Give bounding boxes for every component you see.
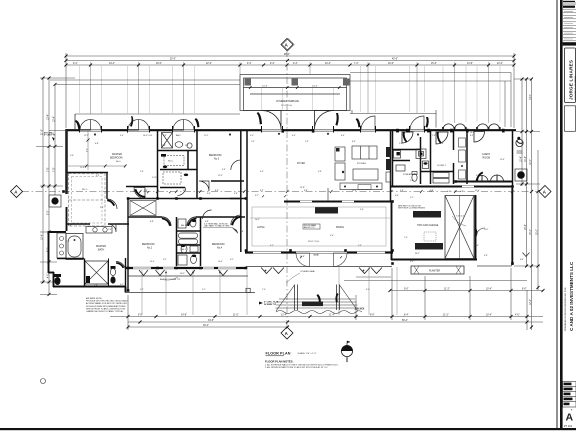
title block vertical thick line (560, 0, 563, 429)
svg-text:15'-0": 15'-0" (536, 229, 538, 235)
svg-text:3'-6": 3'-6" (395, 195, 399, 197)
bath fixtures right wing (394, 149, 450, 183)
great room south double doors arcs (250, 218, 390, 267)
leader arrows scattered (160, 216, 466, 283)
garage right door leaf (474, 228, 477, 237)
svg-text:TWO CAR GARAGE: TWO CAR GARAGE (417, 224, 439, 227)
windows white gaps in bottom walls (133, 253, 385, 269)
svg-text:3'-8": 3'-8" (234, 193, 238, 195)
black jamb marks right wing wall (396, 129, 505, 133)
svg-text:13'-4": 13'-4" (48, 114, 50, 120)
svg-text:4'-0": 4'-0" (207, 193, 211, 195)
architect name box (565, 48, 576, 103)
svg-text:9'-2": 9'-2" (48, 210, 50, 215)
svg-text:9'-2": 9'-2" (255, 195, 259, 197)
svg-text:2'-6": 2'-6" (410, 180, 414, 182)
svg-text:45'-6": 45'-6" (392, 59, 398, 61)
svg-text:7'-2": 7'-2" (354, 63, 359, 65)
svg-text:8'-8": 8'-8" (304, 190, 308, 192)
svg-text:LANAI: LANAI (313, 253, 319, 256)
toilet + bidet (111, 266, 116, 269)
svg-text:30'-4": 30'-4" (203, 325, 209, 327)
svg-text:2'-2": 2'-2" (410, 197, 414, 199)
top exterior wall (67, 129, 516, 131)
right wing bottom line (344, 280, 527, 282)
svg-text:20'-2": 20'-2" (415, 253, 420, 255)
svg-text:2'-10": 2'-10" (152, 177, 157, 179)
svg-text:FLOOR PLAN NOTES:: FLOOR PLAN NOTES: (265, 359, 293, 363)
leader note garage top (398, 206, 426, 210)
svg-text:7'-6" CLG: 7'-6" CLG (456, 216, 465, 218)
svg-text:BATH: BATH (98, 249, 104, 252)
svg-text:18'-0": 18'-0" (156, 63, 162, 65)
living soffit rect (252, 207, 386, 246)
bold door leaves (black commas) along top wall (75, 112, 429, 129)
svg-text:KITCHEN: KITCHEN (357, 163, 366, 165)
left dim verticals (36, 78, 75, 295)
svg-text:11'-8": 11'-8" (352, 190, 357, 192)
bath stack vertical (176, 217, 178, 266)
svg-text:7'-4": 7'-4" (404, 237, 408, 239)
small circle symbol bottom left (41, 379, 46, 384)
svg-text:9'-6": 9'-6" (86, 148, 88, 152)
small box below (565, 106, 576, 132)
centerline interior dim ticks (139, 190, 514, 193)
svg-text:5'-6": 5'-6" (358, 245, 362, 247)
svg-text:15'-0": 15'-0" (530, 229, 532, 235)
svg-text:8'-6": 8'-6" (341, 135, 345, 137)
svg-text:4'-2": 4'-2" (183, 190, 187, 192)
svg-text:7'-0": 7'-0" (251, 141, 255, 143)
svg-text:COVERED TERRACE: COVERED TERRACE (276, 100, 299, 103)
svg-text:14'-4": 14'-4" (312, 86, 318, 88)
column w black dot (49, 195, 61, 207)
svg-text:FLOOR PLAN: FLOOR PLAN (266, 352, 291, 356)
svg-text:10'-4": 10'-4" (486, 315, 492, 317)
svg-text:3'-0": 3'-0" (133, 191, 137, 193)
svg-text:6'-2": 6'-2" (120, 284, 124, 286)
svg-text:6'-8": 6'-8" (150, 221, 154, 223)
planter (411, 266, 464, 274)
dark note box kitchen (315, 207, 338, 214)
svg-text:FOYER: FOYER (297, 163, 305, 165)
svg-text:5'-4": 5'-4" (250, 135, 254, 137)
svg-text:2'-8": 2'-8" (162, 145, 166, 147)
dim numbers top (73, 54, 503, 65)
svg-text:52'-6": 52'-6" (170, 59, 176, 61)
svg-text:10'-2": 10'-2" (497, 63, 503, 65)
svg-text:34'-8": 34'-8" (208, 320, 214, 322)
roof overhang lines (50, 73, 511, 128)
entry portico (240, 75, 350, 111)
svg-text:8'-2": 8'-2" (260, 190, 264, 192)
svg-text:9'-4": 9'-4" (247, 63, 252, 65)
interior dim slashes (147, 191, 342, 258)
svg-text:7'-0": 7'-0" (262, 289, 266, 291)
svg-text:12'-2": 12'-2" (530, 299, 532, 305)
left vanity (57, 233, 66, 258)
svg-text:5'-2": 5'-2" (96, 175, 100, 177)
svg-text:9'-8": 9'-8" (318, 171, 322, 173)
svg-text:5'-8": 5'-8" (144, 190, 148, 192)
svg-text:4'-0": 4'-0" (48, 273, 50, 278)
svg-text:8'-6": 8'-6" (215, 190, 219, 192)
bottom sheet border (0, 428, 576, 430)
svg-text:A: A (285, 331, 289, 336)
column V marks / truss symbols (139, 253, 530, 276)
svg-text:BEDROOM: BEDROOM (110, 157, 122, 160)
jamb extension comb top (80, 66, 501, 122)
bath fixtures center (162, 133, 199, 266)
svg-text:9'-4": 9'-4" (270, 63, 275, 65)
window sill lines in gaps (80, 129, 424, 131)
svg-text:9'-0": 9'-0" (404, 289, 409, 291)
svg-text:9'-4": 9'-4" (73, 63, 78, 65)
svg-text:POWDER: POWDER (403, 174, 412, 176)
dark note box steps (302, 302, 323, 307)
dimension tick marks top row3 (65, 55, 516, 67)
bedrooms bottom wall (126, 267, 247, 269)
svg-text:6'-6": 6'-6" (240, 231, 244, 233)
svg-text:15'-0": 15'-0" (431, 63, 437, 65)
svg-text:SCALE: 1/4" = 1'-0": SCALE: 1/4" = 1'-0" (298, 352, 317, 355)
svg-text:13'-8": 13'-8" (467, 63, 473, 65)
exterior wall note tiny (44, 132, 56, 137)
svg-text:9'-4": 9'-4" (293, 63, 298, 65)
recessed porch slab right of portico (350, 110, 436, 128)
svg-text:No.1: No.1 (116, 161, 121, 163)
svg-text:4'-8": 4'-8" (95, 143, 99, 145)
extra tiny annotation clutter (66, 132, 489, 291)
svg-text:12'-2": 12'-2" (84, 135, 89, 137)
svg-text:6'-6": 6'-6" (430, 190, 434, 192)
svg-text:8" CMU TYP.: 8" CMU TYP. (44, 135, 56, 137)
svg-text:2'-8": 2'-8" (140, 171, 144, 173)
svg-text:6'-0": 6'-0" (447, 191, 451, 193)
bedroom/living divider (240, 131, 242, 252)
black dot right (515, 169, 527, 181)
guest door arcs bottom (402, 132, 504, 182)
svg-text:12'-0": 12'-0" (530, 159, 532, 165)
svg-text:10'-4": 10'-4" (520, 156, 522, 162)
svg-text:AIR BATH NOTE:: AIR BATH NOTE: (86, 297, 103, 300)
svg-text:6'-8": 6'-8" (163, 135, 167, 137)
section circle w flag (341, 345, 352, 356)
bottom small table (563, 382, 576, 408)
svg-text:2'-6": 2'-6" (66, 241, 70, 243)
svg-text:3'-4": 3'-4" (476, 175, 480, 177)
interior door leaves right (403, 132, 484, 181)
svg-text:▲ A-XXX: ▲ A-XXX (354, 308, 365, 311)
svg-text:7'-8": 7'-8" (54, 167, 56, 172)
svg-text:3'-1": 3'-1" (230, 259, 234, 261)
svg-text:DINING: DINING (336, 227, 344, 229)
kitchen cabinets (328, 146, 391, 201)
bottom dim rows (110, 268, 543, 330)
wall white window gaps (80, 129, 424, 131)
svg-text:8'-2": 8'-2" (470, 135, 474, 137)
svg-text:9'-8": 9'-8" (460, 191, 464, 193)
doors master (108, 224, 126, 271)
svg-text:8'-0": 8'-0" (522, 289, 527, 291)
svg-text:5'-2": 5'-2" (140, 289, 144, 291)
closet dashed (69, 174, 106, 227)
svg-text:ROUGH-IN DIMS WITH MANUFACTURE: ROUGH-IN DIMS WITH MANUFACTURER (86, 305, 126, 308)
svg-text:4'-0": 4'-0" (292, 135, 296, 137)
svg-text:4'-6": 4'-6" (222, 169, 226, 171)
svg-text:11'-0": 11'-0" (484, 229, 489, 231)
svg-text:12'-6": 12'-6" (218, 175, 223, 177)
svg-text:3'-1": 3'-1" (163, 259, 167, 261)
interior walls master suite (57, 198, 129, 291)
svg-text:5'-2": 5'-2" (202, 289, 206, 291)
svg-text:7'-0": 7'-0" (305, 141, 309, 143)
bottom ticks (127, 289, 545, 329)
svg-text:4'-0": 4'-0" (515, 315, 520, 317)
WC nook toilet (54, 274, 61, 277)
svg-text:PROVIDE GFCI PROTECTED CIRCUIT: PROVIDE GFCI PROTECTED CIRCUIT AND (86, 300, 128, 303)
svg-text:9'-0": 9'-0" (475, 245, 479, 247)
svg-text:No.4: No.4 (217, 247, 223, 250)
svg-text:ROOM: ROOM (483, 157, 490, 160)
bold door leaves interior (135, 189, 242, 226)
note text block left (86, 297, 128, 313)
svg-text:W.I.C.: W.I.C. (168, 161, 174, 163)
svg-text:14'-4": 14'-4" (262, 86, 268, 88)
svg-text:BA.3: BA.3 (176, 134, 181, 137)
svg-text:10'-6": 10'-6" (470, 132, 475, 134)
svg-text:No.3: No.3 (214, 158, 220, 161)
svg-text:10'-0": 10'-0" (150, 261, 155, 263)
svg-text:12'-4": 12'-4" (54, 116, 56, 122)
svg-text:12'-0" CLG.: 12'-0" CLG. (281, 105, 293, 107)
svg-text:W.I.C.: W.I.C. (82, 189, 88, 191)
svg-text:19'-4": 19'-4" (109, 63, 115, 65)
wheelchair symbol (516, 139, 523, 146)
svg-text:CABINET ACCESS TO PANEL TYPICA: CABINET ACCESS TO PANEL TYPICAL. (86, 310, 124, 313)
svg-text:5'-0": 5'-0" (68, 225, 72, 227)
title block vertical thin line (557, 0, 558, 429)
svg-text:3'-0": 3'-0" (440, 143, 444, 145)
interior dim master bedroom (87, 131, 89, 170)
right dim verticals (514, 79, 540, 330)
svg-text:5'-8": 5'-8" (400, 190, 404, 192)
svg-text:4'-2": 4'-2" (390, 135, 394, 137)
svg-text:59'-4": 59'-4" (402, 320, 408, 322)
svg-text:11'-4": 11'-4" (475, 190, 480, 192)
right patio thin outline (511, 188, 513, 266)
svg-text:BA. 4: BA. 4 (181, 248, 187, 251)
svg-text:14'-0": 14'-0" (180, 273, 185, 275)
hall closet bank with X (130, 201, 156, 216)
opening gaps in kitchen/garage walls (300, 201, 312, 203)
entry door arcs (262, 111, 334, 130)
svg-text:9'-0": 9'-0" (120, 135, 124, 137)
svg-text:5'-4": 5'-4" (360, 209, 364, 211)
svg-text:10'-0" CLG: 10'-0" CLG (143, 135, 153, 137)
svg-text:C AND A 02 INVESTMENTS LLC: C AND A 02 INVESTMENTS LLC (569, 261, 574, 331)
svg-text:10'-0": 10'-0" (218, 261, 223, 263)
svg-text:19'-6": 19'-6" (388, 63, 394, 65)
window swing arcs on top wall (80, 116, 424, 130)
plant bold marks (317, 293, 339, 306)
revision table top right (563, 3, 576, 41)
svg-text:11'-0": 11'-0" (233, 315, 239, 317)
svg-text:19'-4": 19'-4" (42, 234, 44, 240)
svg-text:7'-4": 7'-4" (108, 229, 112, 231)
svg-text:11'-2": 11'-2" (444, 289, 450, 291)
svg-text:PLANTER: PLANTER (429, 270, 440, 273)
svg-text:#T 101: #T 101 (564, 424, 573, 428)
svg-text:6'-0": 6'-0" (260, 171, 264, 173)
svg-text:6'-0": 6'-0" (352, 141, 356, 143)
svg-text:11'-4": 11'-4" (500, 159, 505, 161)
svg-text:2. ALL INTERIOR PARTITIONS T: 2. ALL INTERIOR PARTITIONS TO BE 3-5/8" … (265, 366, 329, 369)
svg-text:14'-0": 14'-0" (530, 94, 532, 100)
svg-text:W/ WWM TYP.: W/ WWM TYP. (264, 304, 277, 306)
svg-text:3'-4": 3'-4" (100, 207, 104, 209)
porch slab line top left (75, 113, 240, 115)
svg-text:PREPARED INTERIOR REMODELING F: PREPARED INTERIOR REMODELING FOR: (564, 287, 567, 331)
portico dim ticks (249, 86, 341, 89)
svg-text:4'-0": 4'-0" (520, 259, 524, 261)
thick divider band (563, 42, 576, 45)
leader note center (204, 223, 230, 228)
small porch column dots below wall (94, 133, 419, 136)
svg-text:10'-4": 10'-4" (525, 156, 527, 162)
svg-text:CLOSET 1: CLOSET 1 (437, 165, 446, 167)
entry jamb posts (282, 129, 285, 133)
svg-text:A: A (543, 189, 547, 194)
svg-text:2'-8": 2'-8" (185, 145, 189, 147)
svg-text:11'-4": 11'-4" (329, 315, 335, 317)
svg-text:10'-2": 10'-2" (255, 219, 260, 221)
garage door X panel (445, 196, 474, 259)
svg-text:SPECS PRIOR TO ANY CONSTRUCTIO: SPECS PRIOR TO ANY CONSTRUCTION. (86, 307, 126, 310)
svg-text:JORGE LINARES: JORGE LINARES (569, 60, 574, 100)
svg-text:11'-2": 11'-2" (443, 315, 449, 317)
svg-text:2'-0": 2'-0" (70, 155, 74, 157)
left/right ticks (42, 77, 540, 329)
svg-text:COVERED LANAI: COVERED LANAI (300, 270, 315, 273)
svg-text:2'-4": 2'-4" (399, 143, 403, 145)
svg-text:18'-0" CLG.: 18'-0" CLG. (308, 241, 320, 243)
svg-text:22'-6": 22'-6" (206, 63, 212, 65)
svg-text:8'-4": 8'-4" (404, 315, 409, 317)
svg-text:4'-8": 4'-8" (94, 285, 98, 287)
svg-text:14'-8": 14'-8" (181, 315, 187, 317)
svg-text:A: A (285, 42, 289, 47)
svg-text:3'-8": 3'-8" (484, 255, 488, 257)
shower w X (85, 261, 108, 284)
svg-text:16'-2": 16'-2" (325, 63, 331, 65)
svg-text:3'-2": 3'-2" (270, 245, 274, 247)
top vanity (86, 227, 112, 234)
entry steps bottom center (295, 285, 340, 311)
svg-text:No.2: No.2 (147, 247, 153, 250)
svg-text:A: A (14, 189, 18, 194)
svg-text:3'-0": 3'-0" (410, 261, 414, 263)
svg-text:7'-0": 7'-0" (432, 135, 436, 137)
door arcs center wing (134, 160, 241, 226)
svg-text:WITH SELF CLOSING HINGES: WITH SELF CLOSING HINGES (398, 208, 426, 210)
svg-text:12'-8": 12'-8" (300, 187, 305, 189)
svg-text:16'-4": 16'-4" (525, 224, 527, 230)
svg-text:12'-4": 12'-4" (281, 315, 287, 317)
svg-text:10'-4": 10'-4" (486, 289, 492, 291)
svg-text:9'-6": 9'-6" (330, 235, 334, 237)
vertical extension lines from top dims into plan (91, 62, 489, 123)
dark arrow note left of steps (259, 302, 263, 305)
svg-text:11'-2": 11'-2" (204, 135, 209, 137)
svg-text:9'-0": 9'-0" (370, 315, 375, 317)
svg-text:ABOVE TYP.: ABOVE TYP. (304, 226, 315, 229)
svg-text:CAP. PAINT TO MATCH TRIM: CAP. PAINT TO MATCH TRIM (204, 225, 230, 228)
svg-text:LIVING: LIVING (257, 227, 265, 229)
portico columns (hatched) (245, 79, 350, 86)
svg-text:7'-8": 7'-8" (48, 167, 50, 172)
scalloped bay windows right top (443, 124, 500, 130)
jamb marks on top wall (80, 126, 425, 133)
dark note boxes garage (413, 211, 441, 218)
svg-text:15'-8": 15'-8" (80, 167, 85, 169)
master bath tub (66, 234, 83, 260)
svg-text:6'-4": 6'-4" (366, 289, 370, 291)
svg-text:ACCESS PANEL FOR MOTOR. VERIFY: ACCESS PANEL FOR MOTOR. VERIFY ALL (86, 302, 128, 305)
svg-text:A: A (566, 412, 574, 424)
wavy planting bed line (276, 311, 362, 314)
